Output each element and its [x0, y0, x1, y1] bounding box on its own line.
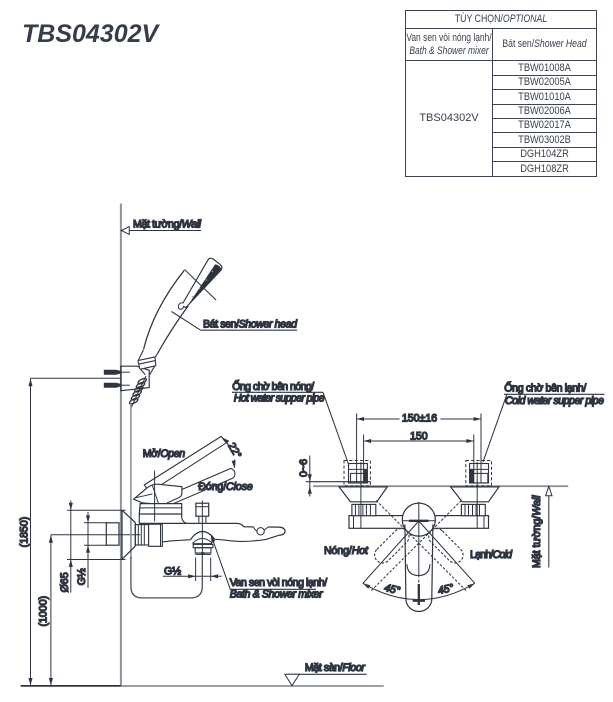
hand shower: cross line through head [185, 270, 217, 301]
escutcheon (cold side) [451, 487, 499, 502]
hex nut (hot side) [352, 504, 376, 515]
hot water wall union (dashed install box) [344, 461, 370, 486]
svg-text:0~6: 0~6 [298, 459, 310, 477]
dimension 0~6 (pipe protrusion) [298, 456, 371, 497]
valve axis (cold) [476, 462, 478, 528]
spout tip inner arc [407, 564, 430, 575]
label Mở/Open [143, 448, 186, 460]
label Mặt sàn/Floor with level triangle [285, 662, 367, 686]
dimension 150 [364, 430, 474, 483]
dimension G1/2 (wall union) [76, 512, 107, 588]
svg-text:Mở/Open: Mở/Open [143, 448, 186, 460]
hand shower outlet dome [191, 532, 215, 544]
pivot centerlines [402, 502, 436, 605]
valve axis (hot) [360, 462, 362, 528]
svg-text:Bát sen/Shower head: Bát sen/Shower head [203, 318, 298, 330]
label Mặt tường/Wall (top) [121, 218, 201, 234]
spout barrel capsule [405, 525, 433, 612]
svg-text:Cold water supper pipe: Cold water supper pipe [505, 395, 604, 407]
options table [405, 10, 597, 177]
hose loop to mixer outlet [131, 557, 202, 598]
hand shower: hose connector cone [138, 350, 158, 375]
svg-text:(1000): (1000) [37, 596, 49, 627]
svg-text:Mặt tường/Wall: Mặt tường/Wall [531, 495, 543, 568]
outlet axis centerline [201, 501, 203, 558]
mixer lever (closed position) [162, 468, 235, 506]
supply pipe centerline (left view) [51, 534, 140, 536]
label Ống chờ bên nóng / Hot water supper pipe [232, 379, 349, 466]
hand shower: handle left outline [144, 270, 185, 349]
22° swing arc [221, 436, 236, 468]
mixer lever (open position) [144, 436, 226, 492]
lever hub [134, 484, 182, 504]
floor line [21, 685, 384, 687]
wall line (left view, vertical) [120, 204, 122, 687]
lever direction cross lines [371, 501, 467, 592]
svg-text:G½: G½ [76, 568, 88, 585]
svg-text:Hot water supper pipe: Hot water supper pipe [234, 393, 325, 405]
mixer body and spout [139, 523, 285, 542]
svg-text:45°: 45° [383, 582, 401, 597]
hand shower: hose line through coil [131, 376, 146, 408]
cartridge axis centerline [154, 471, 156, 522]
hose coupling nut [195, 548, 211, 555]
hand shower: head body [182, 258, 222, 307]
45° radius lines [363, 521, 475, 583]
label 45° (right) [437, 582, 455, 597]
label Mặt tường/Wall (right view, vertical) [531, 486, 552, 568]
hand shower: handle right outline [158, 306, 189, 354]
cartridge dome circle [402, 503, 435, 536]
wall line (right view, horizontal) [313, 485, 568, 487]
45° swing arc [362, 582, 476, 600]
dimension Ø65 [59, 501, 126, 593]
svg-text:45°: 45° [437, 582, 455, 597]
spout aerator swirl [254, 527, 269, 535]
escutcheon (hot side) [339, 487, 387, 502]
label Đóng/Close [198, 481, 253, 493]
svg-text:Van sen vòi nóng lạnh/: Van sen vòi nóng lạnh/ [230, 577, 328, 589]
label Lạnh/Cold [470, 549, 513, 561]
label 22° [225, 441, 243, 461]
threaded union G1/2 [135, 525, 148, 545]
svg-text:Ø65: Ø65 [59, 572, 71, 592]
leader and label Van sen vòi nóng lạnh / Bath & Shower mixer [209, 534, 327, 600]
svg-text:Mặt sàn/Floor: Mặt sàn/Floor [305, 662, 365, 674]
dimension G1/2 (shower hose outlet) [163, 558, 222, 582]
svg-text:Ống chờ bên nóng/: Ống chờ bên nóng/ [232, 379, 314, 393]
cold water wall union (dashed install box) [466, 461, 492, 486]
lever handle positions at ±45° [371, 525, 466, 566]
title TBS04302V [22, 20, 158, 49]
label Bát sen/Shower head [172, 312, 299, 331]
svg-text:150±16: 150±16 [402, 412, 437, 424]
wall escutcheon cone (Ø65) [122, 510, 135, 559]
hand shower: spray face (dark) [186, 264, 221, 307]
svg-text:Ống chờ bên lạnh/: Ống chờ bên lạnh/ [504, 381, 586, 395]
svg-text:(1850): (1850) [19, 517, 31, 548]
svg-text:Bath & Shower mixer: Bath & Shower mixer [230, 589, 323, 601]
holder screw (lower) [104, 383, 130, 388]
svg-text:150: 150 [410, 430, 428, 442]
label Ống chờ bên lạnh / Cold water supper pipe [483, 381, 605, 463]
svg-text:Mặt tường/Wall: Mặt tường/Wall [133, 218, 202, 230]
hand shower: hose spring coil [129, 377, 148, 405]
dimension (1000) [37, 535, 53, 686]
supply pipe stub through wall [106, 523, 119, 545]
dimension (1850) [19, 378, 121, 686]
label 45° (left) [383, 582, 401, 597]
svg-text:Đóng/Close: Đóng/Close [198, 481, 253, 493]
hex nut (cold side) [461, 504, 485, 515]
cartridge housing [139, 514, 186, 523]
shower holder bracket on wall [121, 366, 149, 391]
diverter knob [196, 503, 209, 522]
check valve block [149, 524, 163, 546]
label Nóng/Hot [324, 545, 369, 557]
dimension 150±16 [357, 412, 481, 483]
svg-text:G½: G½ [164, 566, 181, 578]
hose drop along wall [130, 404, 132, 559]
outlet flange ring [193, 544, 213, 547]
svg-text:Nóng/Hot: Nóng/Hot [324, 545, 369, 557]
svg-text:Lạnh/Cold: Lạnh/Cold [470, 549, 513, 561]
cartridge cap [139, 504, 181, 514]
hand shower: holder hook [178, 303, 183, 310]
holder screw (upper) [104, 370, 130, 375]
mixer body bar [349, 516, 489, 529]
